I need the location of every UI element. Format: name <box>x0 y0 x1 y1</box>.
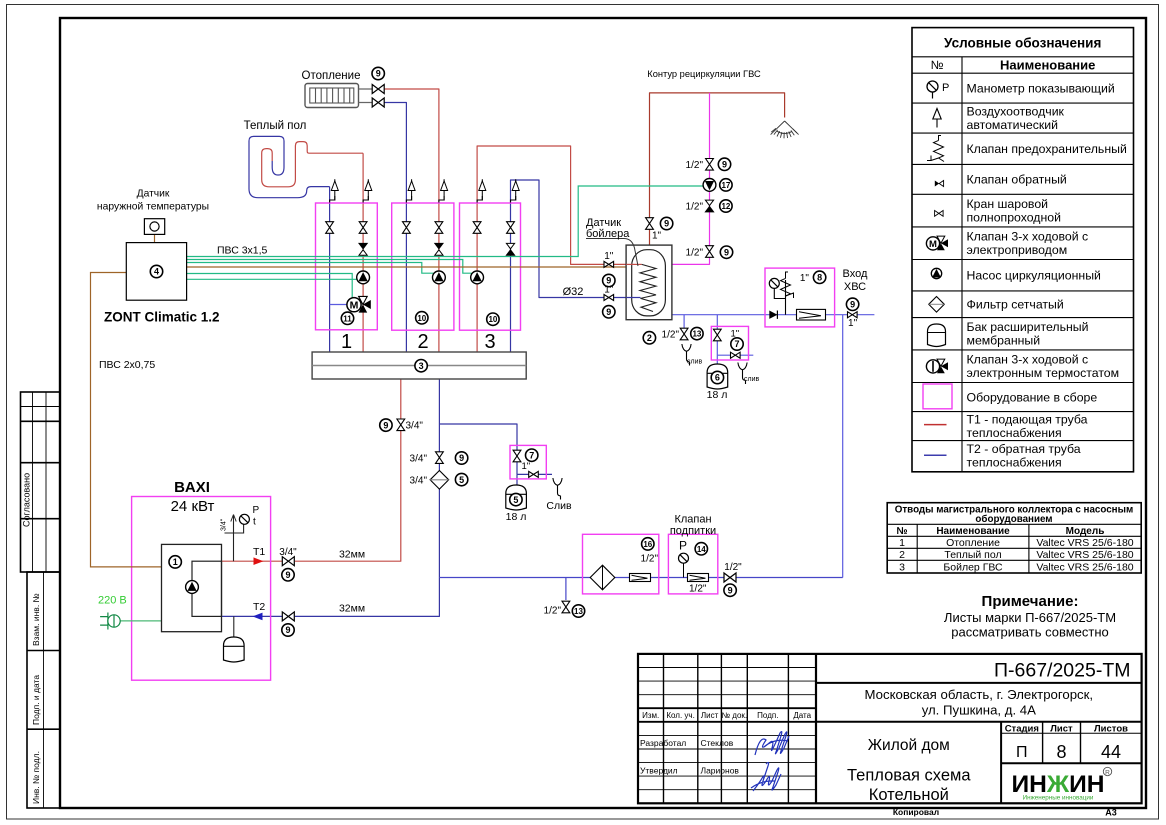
valve radiator return <box>372 98 384 107</box>
wire floor coil red supply <box>262 142 363 187</box>
svg-text:полнопроходной: полнопроходной <box>967 211 1062 225</box>
tank6 valve box <box>711 326 748 360</box>
svg-text:Клапан: Клапан <box>674 514 711 526</box>
svg-text:Valtec VRS 25/6-180: Valtec VRS 25/6-180 <box>1036 549 1133 561</box>
svg-text:Клапан 3-х ходовой с: Клапан 3-х ходовой с <box>967 230 1089 244</box>
controller ZONT box <box>126 243 186 301</box>
wire tank6 stub <box>717 315 753 364</box>
svg-text:P: P <box>253 505 260 516</box>
node 9 blue drop valve <box>455 452 467 464</box>
node 9 T1 valve <box>282 569 294 581</box>
svg-text:3/4": 3/4" <box>406 421 424 432</box>
svg-text:№: № <box>896 526 907 537</box>
svg-text:Кран шаровой: Кран шаровой <box>967 197 1049 211</box>
svg-text:9: 9 <box>383 420 388 430</box>
legend pump symbol <box>931 268 941 278</box>
funnel XBC drain <box>682 344 691 366</box>
wire T2 from BAXI blue <box>222 615 283 617</box>
svg-text:Р: Р <box>679 539 687 553</box>
svg-text:Т2: Т2 <box>253 601 265 613</box>
expansion tank 5 <box>506 485 527 510</box>
svg-text:ул. Пушкина, д. 4А: ул. Пушкина, д. 4А <box>922 703 1036 718</box>
right section lines <box>816 683 1142 763</box>
svg-text:1/2": 1/2" <box>689 584 707 595</box>
3-way valve group1 with M drive <box>330 296 371 312</box>
node 9 makeup shutoff <box>724 584 736 596</box>
svg-text:Бойлер ГВС: Бойлер ГВС <box>943 561 1003 573</box>
wire recirculation magenta riser <box>672 93 710 265</box>
svg-text:Ларионов: Ларионов <box>701 766 740 776</box>
node 9 tank top valve <box>660 217 672 229</box>
svg-text:Теплый пол: Теплый пол <box>944 549 1001 561</box>
makeup valve unit 14 <box>679 553 689 563</box>
wire group3 blue riser from boiler tank <box>511 180 627 352</box>
svg-text:Наименование: Наименование <box>936 526 1010 537</box>
svg-text:10: 10 <box>417 314 426 323</box>
svg-text:32мм: 32мм <box>339 603 365 615</box>
svg-text:5: 5 <box>513 495 518 505</box>
svg-text:220 В: 220 В <box>98 595 127 607</box>
check valve group2 <box>435 243 443 255</box>
air vent group2 blue <box>406 196 411 203</box>
valve boiler red in <box>604 261 614 267</box>
BAXI assembly box <box>132 497 271 681</box>
funnel tank6 drain <box>738 363 747 385</box>
svg-text:9: 9 <box>728 585 733 595</box>
svg-text:Разработал: Разработал <box>640 738 686 748</box>
node 5 filter <box>455 473 467 485</box>
wire brown boiler sensor <box>187 266 633 268</box>
funnel tank5 drain <box>553 478 562 500</box>
svg-text:1: 1 <box>899 537 905 549</box>
svg-text:11: 11 <box>343 314 352 323</box>
wire XBC drop to makeup <box>842 315 844 578</box>
svg-text:M: M <box>929 239 937 250</box>
svg-text:8: 8 <box>1056 742 1066 762</box>
valve group2 left <box>403 222 411 234</box>
svg-text:1": 1" <box>604 285 614 296</box>
logo INZHIN <box>1012 767 1112 801</box>
BAXI inner unit <box>162 544 222 631</box>
svg-text:1": 1" <box>604 251 614 262</box>
legend T1 line symbol <box>924 424 947 426</box>
svg-text:1/2": 1/2" <box>544 606 562 617</box>
T2 arrow <box>253 613 263 621</box>
svg-text:Подп. и дата: Подп. и дата <box>31 675 41 725</box>
svg-text:8: 8 <box>817 273 822 283</box>
svg-text:№: № <box>931 58 944 72</box>
wire collector blue down to T2 <box>295 379 439 616</box>
legend gauge symbol <box>927 81 949 99</box>
XBC filter reducer <box>797 309 826 320</box>
svg-text:автоматический: автоматический <box>967 118 1059 132</box>
valve T1 BAXI <box>282 557 294 566</box>
svg-text:бойлера: бойлера <box>586 228 630 240</box>
left attachment block: Взам.инв., Подп., Инв. <box>27 572 60 808</box>
BAXI gauge and air vent <box>225 514 250 561</box>
header labels <box>642 711 811 720</box>
left attachment block: Согласовано <box>21 392 61 572</box>
signature 1 <box>755 732 789 755</box>
wire collector red down to T1 <box>295 379 401 561</box>
svg-text:Теплый пол: Теплый пол <box>244 120 307 132</box>
svg-text:Отопление: Отопление <box>946 537 1000 549</box>
svg-text:ПВС 2х0,75: ПВС 2х0,75 <box>99 359 155 371</box>
XBC inlet valve <box>848 312 858 318</box>
air vent group1 blue <box>330 196 335 203</box>
svg-text:Оборудование в сборе: Оборудование в сборе <box>967 391 1098 405</box>
svg-text:24 кВт: 24 кВт <box>171 498 215 515</box>
svg-text:Контур рециркуляции ГВС: Контур рециркуляции ГВС <box>647 69 761 79</box>
svg-text:2: 2 <box>647 333 652 343</box>
svg-text:7: 7 <box>529 450 534 460</box>
node 8 XBC unit <box>813 271 825 283</box>
air vent group2 red <box>439 196 444 203</box>
svg-text:1": 1" <box>652 231 662 242</box>
svg-text:рассматривать совместно: рассматривать совместно <box>951 625 1109 640</box>
node 17 recirc pump <box>720 179 732 191</box>
legend table frame <box>912 28 1134 472</box>
pump group1 <box>357 271 370 284</box>
svg-text:1": 1" <box>800 273 810 284</box>
svg-text:Стадия: Стадия <box>1005 723 1039 734</box>
svg-text:Инженерные инновации: Инженерные инновации <box>1023 795 1094 802</box>
svg-text:ZONT Climatic 1.2: ZONT Climatic 1.2 <box>104 310 220 325</box>
svg-text:3: 3 <box>899 561 905 573</box>
wire brown to BAXI <box>91 273 162 567</box>
plug 220V <box>100 613 120 630</box>
svg-text:M: M <box>350 300 359 312</box>
svg-text:1/2": 1/2" <box>686 202 704 213</box>
svg-text:Клапан предохранительный: Клапан предохранительный <box>967 142 1127 156</box>
svg-text:3/4": 3/4" <box>221 518 228 531</box>
node 12 recirc check <box>720 200 732 212</box>
node 9 red drop valve <box>380 419 392 431</box>
svg-text:R: R <box>1105 769 1110 776</box>
valve on blue drop <box>436 452 444 464</box>
wire 220V green <box>120 620 161 622</box>
legend tank symbol <box>928 324 946 347</box>
wire green to group3 pump <box>187 260 472 274</box>
valve group2 right <box>435 222 443 234</box>
svg-text:44: 44 <box>1101 742 1121 762</box>
svg-text:Наименование: Наименование <box>1000 58 1095 73</box>
svg-text:Модель: Модель <box>1066 526 1105 537</box>
wire XBC cold water line blue <box>672 314 875 316</box>
boiler tank <box>626 245 672 320</box>
valve on red drop <box>397 419 405 431</box>
svg-text:9: 9 <box>606 307 611 317</box>
filter on blue drop <box>430 471 449 490</box>
svg-text:электронным термостатом: электронным термостатом <box>967 366 1120 380</box>
check valve recirc 12 <box>705 200 713 212</box>
node 14 makeup valve <box>695 543 707 555</box>
svg-text:слив: слив <box>687 359 702 366</box>
air vent group3 red <box>477 196 482 203</box>
svg-text:Примечание:: Примечание: <box>982 593 1079 610</box>
svg-text:BAXI: BAXI <box>174 479 210 496</box>
svg-text:ПВС 3х1,5: ПВС 3х1,5 <box>217 245 268 257</box>
svg-text:ХВС: ХВС <box>844 281 866 293</box>
group 3 assembly box <box>460 203 521 330</box>
makeup drain valve 13 <box>562 601 570 613</box>
pump BAXI <box>186 581 199 594</box>
radiator Отопление <box>305 84 372 108</box>
svg-text:Т2 - обратная труба: Т2 - обратная труба <box>967 442 1081 456</box>
svg-text:Кол. уч.: Кол. уч. <box>666 711 694 720</box>
wire green to recirc pump <box>187 186 703 257</box>
node 9 radiator valves <box>372 67 384 79</box>
outdoor sensor box <box>144 219 164 243</box>
wire T1 from BAXI red <box>222 560 283 562</box>
check valve group3 <box>506 243 514 255</box>
svg-text:Жилой дом: Жилой дом <box>868 737 950 754</box>
svg-text:Отопление: Отопление <box>302 70 361 82</box>
valve tank5 <box>513 450 521 462</box>
svg-text:Листы марки П-667/2025-ТМ: Листы марки П-667/2025-ТМ <box>944 610 1116 625</box>
svg-text:Листов: Листов <box>1094 723 1128 734</box>
tank5 valve box <box>510 445 546 479</box>
legend ball valve symbol <box>935 211 944 217</box>
svg-text:Клапан 3-х ходовой с: Клапан 3-х ходовой с <box>967 353 1089 367</box>
node 9 tank red valve <box>603 274 615 286</box>
expansion vessel BAXI <box>233 616 235 639</box>
svg-text:Т1: Т1 <box>253 546 265 558</box>
svg-text:Valtec VRS 25/6-180: Valtec VRS 25/6-180 <box>1036 537 1133 549</box>
svg-text:№ док.: № док. <box>721 711 747 720</box>
svg-text:9: 9 <box>459 453 464 463</box>
svg-text:3: 3 <box>484 331 495 353</box>
svg-text:13: 13 <box>574 607 583 616</box>
svg-text:Р: Р <box>942 82 949 94</box>
wire makeup drain stub <box>565 578 567 601</box>
svg-text:теплоснабжения: теплоснабжения <box>967 456 1062 470</box>
node 9 XBC inlet valve <box>846 298 858 310</box>
svg-text:16: 16 <box>643 540 652 549</box>
svg-text:10: 10 <box>488 315 497 324</box>
svg-text:Фильтр сетчатый: Фильтр сетчатый <box>967 298 1064 312</box>
legend T2 line symbol <box>924 454 947 456</box>
wire T2 radiator return blue <box>385 103 407 204</box>
node 4 ZONT <box>150 265 162 277</box>
svg-text:3/4": 3/4" <box>410 476 428 487</box>
svg-text:3/4": 3/4" <box>279 547 297 558</box>
makeup reducer 16 <box>630 574 651 582</box>
pump group3 <box>471 271 484 284</box>
wire XBC drain stub <box>683 315 685 329</box>
collector <box>312 352 526 379</box>
svg-text:1": 1" <box>731 329 740 340</box>
svg-text:наружной температуры: наружной температуры <box>97 202 209 213</box>
svg-text:П: П <box>1016 744 1028 761</box>
node 6 tank <box>711 371 723 383</box>
pump recirc 17 <box>703 179 716 192</box>
XBC safety valve <box>781 272 794 298</box>
XBC gauge <box>774 280 785 315</box>
wire floor coil blue return <box>249 136 330 197</box>
valve group3 right <box>507 222 515 234</box>
node 2 boiler tank <box>643 332 655 344</box>
svg-text:9: 9 <box>285 625 290 635</box>
svg-text:1/2": 1/2" <box>724 562 742 573</box>
air vent group1 red <box>363 196 368 203</box>
svg-text:А3: А3 <box>1105 808 1117 818</box>
svg-text:Манометр показывающий: Манометр показывающий <box>967 82 1115 96</box>
air vent group3 blue <box>511 196 516 203</box>
svg-text:1: 1 <box>173 557 178 567</box>
wire DHW recirculation loop dark red <box>650 93 785 245</box>
svg-text:Воздухоотводчик: Воздухоотводчик <box>967 105 1065 119</box>
svg-text:2: 2 <box>417 331 428 353</box>
svg-text:1": 1" <box>522 461 531 472</box>
svg-text:Московская область, г. Электро: Московская область, г. Электрогорск, <box>865 687 1094 702</box>
check valve group1 <box>359 243 367 255</box>
legend check valve symbol <box>935 181 944 187</box>
wire group2 red riser <box>438 203 440 352</box>
node 7 tank6 valve <box>731 338 743 350</box>
svg-text:12: 12 <box>721 202 730 211</box>
title block frame <box>638 654 1142 803</box>
svg-text:1/2": 1/2" <box>641 554 659 565</box>
legend safety valve symbol <box>927 136 944 162</box>
svg-text:3/4": 3/4" <box>410 454 428 465</box>
legend filter symbol <box>929 297 945 313</box>
valve boiler top red <box>646 218 654 230</box>
svg-text:Тепловая схема: Тепловая схема <box>847 767 971 785</box>
makeup valve box <box>668 534 717 594</box>
wire green to group1 pump <box>187 278 358 280</box>
svg-text:17: 17 <box>721 181 730 190</box>
svg-text:электроприводом: электроприводом <box>967 243 1068 257</box>
node 13 XBC drain <box>691 327 703 339</box>
pump group2 <box>433 271 446 284</box>
legend assembly box symbol <box>923 384 952 409</box>
svg-text:7: 7 <box>734 339 739 349</box>
wire green to group2 pump <box>187 263 434 274</box>
valve tank5 drain <box>529 471 539 477</box>
group 2 assembly box <box>392 203 454 330</box>
svg-text:1: 1 <box>341 331 352 353</box>
node 10 group3 <box>487 313 499 325</box>
makeup valve 9 <box>724 573 736 582</box>
svg-text:1/2": 1/2" <box>686 248 704 259</box>
svg-text:слив: слив <box>744 376 759 383</box>
wire group2 blue riser <box>405 203 407 352</box>
expansion tank 6 <box>707 364 728 389</box>
valve recirc top <box>706 159 714 171</box>
wire green to group1 M-valve <box>187 274 353 298</box>
signature 2 <box>751 762 781 791</box>
svg-text:32мм: 32мм <box>339 549 365 561</box>
wire group1 blue riser <box>329 187 331 352</box>
svg-text:подпитки: подпитки <box>670 525 716 537</box>
wire branch to expansion tank 18l <box>439 424 517 474</box>
shower head <box>771 121 799 138</box>
valve group1 left <box>326 222 334 234</box>
node 5 tank <box>510 493 522 505</box>
svg-text:3: 3 <box>419 361 424 371</box>
wire tank5 stem <box>516 474 518 485</box>
legend thermostat valve symbol <box>926 359 948 373</box>
makeup filter diamond <box>593 568 612 587</box>
wire tank5 drain stub <box>517 473 552 475</box>
node 1 BAXI <box>169 556 181 568</box>
node 9 T2 valve <box>282 624 294 636</box>
valve group3 left <box>473 222 481 234</box>
node 16 makeup filter <box>642 538 654 550</box>
svg-text:Дата: Дата <box>793 711 811 720</box>
svg-text:2: 2 <box>899 549 905 561</box>
svg-text:13: 13 <box>692 330 701 339</box>
legend 3-way valve symbol <box>926 236 948 250</box>
svg-text:18 л: 18 л <box>506 511 527 523</box>
wire T1 radiator supply red <box>385 89 439 203</box>
legend air vent symbol <box>933 109 941 128</box>
svg-text:Слив: Слив <box>546 500 572 512</box>
svg-text:1/2": 1/2" <box>686 160 704 171</box>
svg-text:9: 9 <box>376 69 381 79</box>
svg-text:Взам. инв. №: Взам. инв. № <box>31 593 41 646</box>
svg-text:6: 6 <box>715 373 720 383</box>
node 7 tank5 valve <box>526 449 538 461</box>
XBC check valve <box>769 311 777 319</box>
svg-text:Т1 - подающая труба: Т1 - подающая труба <box>967 413 1088 427</box>
svg-text:теплоснабжения: теплоснабжения <box>967 426 1062 440</box>
svg-text:Инв. № подл.: Инв. № подл. <box>31 751 41 804</box>
node 9 tank blue valve <box>603 306 615 318</box>
svg-text:1/2": 1/2" <box>662 330 680 341</box>
XBC inlet box <box>765 268 835 327</box>
valve tank6 drain <box>731 352 741 358</box>
XBC drain valve 13 <box>680 328 688 340</box>
valve boiler blue in <box>604 295 614 301</box>
valve tank6 <box>713 329 721 341</box>
svg-text:Условные обозначения: Условные обозначения <box>944 36 1101 51</box>
svg-text:4: 4 <box>154 267 159 277</box>
svg-text:Датчик: Датчик <box>137 189 170 200</box>
svg-text:Вход: Вход <box>843 268 868 280</box>
svg-text:Лист: Лист <box>701 711 719 720</box>
svg-text:Подп.: Подп. <box>757 711 778 720</box>
svg-text:Ø32: Ø32 <box>563 286 584 298</box>
svg-text:9: 9 <box>285 570 290 580</box>
svg-text:14: 14 <box>697 545 706 554</box>
svg-text:t: t <box>253 517 256 528</box>
valve recirc bottom <box>706 246 714 258</box>
svg-text:Утвердил: Утвердил <box>640 766 678 776</box>
T1 arrow <box>254 557 264 565</box>
sensor label leader <box>586 239 638 267</box>
svg-text:9: 9 <box>664 219 669 229</box>
wire group1 red riser <box>362 153 364 352</box>
svg-text:Изм.: Изм. <box>642 711 659 720</box>
node 11 group1 <box>341 312 353 324</box>
svg-text:9: 9 <box>724 247 729 257</box>
valve group1 right <box>359 222 367 234</box>
svg-text:Клапан обратный: Клапан обратный <box>967 173 1067 187</box>
svg-text:оборудованием: оборудованием <box>975 514 1052 525</box>
svg-text:9: 9 <box>850 300 855 310</box>
node 10 group2 <box>416 312 428 324</box>
node 9 recirc valve bottom <box>720 246 732 258</box>
valve T2 BAXI <box>282 612 294 621</box>
wire group3 red riser to boiler tank <box>477 146 626 352</box>
svg-text:П-667/2025-ТМ: П-667/2025-ТМ <box>994 660 1131 682</box>
svg-text:Стеклов: Стеклов <box>701 738 734 748</box>
svg-text:1": 1" <box>848 318 858 329</box>
svg-text:Котельной: Котельной <box>869 786 949 804</box>
svg-text:Лист: Лист <box>1050 723 1073 734</box>
